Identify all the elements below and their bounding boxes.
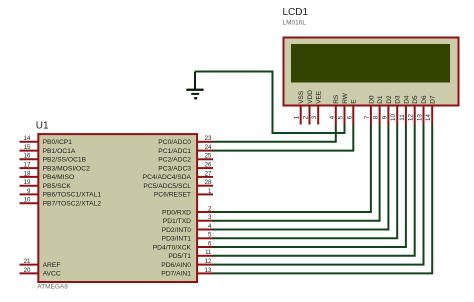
svg-text:PC0/ADC0: PC0/ADC0 — [158, 139, 191, 146]
svg-text:3: 3 — [208, 214, 212, 221]
svg-text:25: 25 — [205, 153, 212, 160]
U1 pin 5 PD3/INT1 — [162, 232, 213, 243]
U1 pin 6 PD4/T0/XCK — [153, 240, 213, 251]
U1 pin 2 PD0/RXD — [162, 205, 213, 216]
U1 pin 26 PC3/ADC3 — [158, 162, 213, 173]
wire PD1 to LCD D1 pin 8 — [213, 125, 380, 221]
svg-text:1: 1 — [208, 188, 212, 195]
svg-text:LM016L: LM016L — [283, 20, 307, 27]
svg-text:PB5/SCK: PB5/SCK — [43, 183, 72, 190]
svg-text:PC2/ADC2: PC2/ADC2 — [158, 157, 191, 164]
ground — [186, 72, 203, 100]
svg-text:8: 8 — [373, 115, 380, 119]
wire PD3 to LCD D3 pin 10 — [213, 125, 398, 239]
svg-text:PB1/OC1A: PB1/OC1A — [43, 148, 76, 155]
svg-text:PC3/ADC3: PC3/ADC3 — [158, 165, 191, 172]
svg-text:AVCC: AVCC — [43, 271, 61, 278]
svg-text:D5: D5 — [412, 95, 419, 104]
LCD1 screen — [291, 44, 450, 83]
U1 reference label — [36, 121, 49, 132]
svg-text:VDD: VDD — [307, 90, 314, 104]
svg-text:RS: RS — [333, 94, 340, 104]
svg-text:VEE: VEE — [316, 90, 323, 104]
LCD1 pin 9 D2 — [381, 95, 392, 124]
svg-text:18: 18 — [24, 170, 31, 177]
svg-text:14: 14 — [425, 114, 432, 121]
U1 pin 13 PD7/AIN1 — [161, 267, 213, 278]
svg-text:7: 7 — [364, 115, 371, 119]
wire PD5 to LCD D5 pin 12 — [213, 125, 415, 256]
svg-text:24: 24 — [205, 144, 212, 151]
LCD1 pin 2 VDD — [303, 90, 314, 125]
svg-text:5: 5 — [208, 232, 212, 239]
svg-text:11: 11 — [205, 249, 212, 256]
wire PD2 to LCD D2 pin 9 — [213, 125, 389, 230]
U1 value label ATMEGA8 — [37, 284, 68, 291]
svg-text:10: 10 — [390, 114, 397, 121]
wire PC1 pin24 to LCD E pin 6 — [213, 125, 354, 151]
wire ground net to LCD RW pin 5 — [195, 72, 345, 134]
U1 pin 14 PB0/ICP1 — [20, 135, 73, 146]
svg-text:3: 3 — [311, 115, 318, 119]
svg-text:D1: D1 — [377, 95, 384, 104]
svg-text:ATMEGA8: ATMEGA8 — [37, 284, 68, 291]
U1 pin 17 PB3/MOSI/OC2 — [20, 162, 91, 173]
wire PC0 pin23 to LCD RS pin 4 — [213, 125, 336, 142]
svg-text:20: 20 — [24, 267, 31, 274]
svg-text:D7: D7 — [430, 95, 437, 104]
U1 pin 16 PB2/SS/OC1B — [20, 153, 87, 164]
U1 pin 11 PD5/T1 — [168, 249, 213, 260]
LCD1 pin 6 E — [346, 99, 357, 125]
U1 pin 12 PD6/AIN0 — [161, 258, 213, 269]
svg-text:13: 13 — [205, 267, 212, 274]
svg-text:E: E — [351, 99, 358, 104]
svg-text:14: 14 — [24, 135, 31, 142]
svg-text:11: 11 — [399, 114, 406, 121]
svg-text:19: 19 — [24, 179, 31, 186]
U1 pin 3 PD1/TXD — [163, 214, 213, 225]
U1 pin 23 PC0/ADC0 — [158, 135, 213, 146]
svg-text:D4: D4 — [403, 95, 410, 104]
svg-text:28: 28 — [205, 179, 212, 186]
LCD1 pin 11 D4 — [399, 95, 410, 124]
U1 pin 4 PD2/INT0 — [162, 223, 213, 234]
U1 pin 24 PC1/ADC1 — [158, 144, 213, 155]
svg-text:PD5/T1: PD5/T1 — [168, 253, 191, 260]
svg-text:LCD1: LCD1 — [283, 7, 309, 18]
LCD1 pin 13 D6 — [417, 95, 428, 124]
U1 pin 15 PB1/OC1A — [20, 144, 76, 155]
LCD1 pin 10 D3 — [390, 95, 401, 124]
svg-text:PD0/RXD: PD0/RXD — [162, 209, 191, 216]
svg-text:VSS: VSS — [298, 90, 305, 104]
svg-text:PD6/AIN0: PD6/AIN0 — [161, 262, 191, 269]
svg-text:23: 23 — [205, 135, 212, 142]
U1 pin 28 PC5/ADC5/SCL — [143, 179, 213, 190]
LCD1 pin 4 RS — [329, 94, 340, 124]
svg-text:PD2/INT0: PD2/INT0 — [162, 227, 192, 234]
svg-text:2: 2 — [303, 115, 310, 119]
svg-text:6: 6 — [346, 115, 353, 119]
svg-text:2: 2 — [208, 205, 212, 212]
LCD1 pin 8 D1 — [373, 95, 384, 124]
wire PD0 to LCD D0 pin 7 — [213, 125, 371, 213]
U1 pin 10 PB7/TOSC2/XTAL2 — [20, 197, 102, 208]
LCD1 reference label — [283, 7, 309, 18]
svg-text:PB6/TOSC1/XTAL1: PB6/TOSC1/XTAL1 — [43, 192, 102, 199]
svg-text:PC5/ADC5/SCL: PC5/ADC5/SCL — [143, 183, 191, 190]
svg-text:27: 27 — [205, 170, 212, 177]
svg-text:12: 12 — [205, 258, 212, 265]
U1 pin 27 PC4/ADC4/SDA — [143, 170, 213, 181]
U1 pin 9 PB6/TOSC1/XTAL1 — [20, 188, 102, 199]
svg-text:PD1/TXD: PD1/TXD — [163, 218, 191, 225]
U1 pin 20 AVCC — [20, 267, 61, 278]
svg-text:9: 9 — [381, 115, 388, 119]
svg-text:RW: RW — [342, 92, 349, 104]
svg-text:26: 26 — [205, 162, 212, 169]
U1 pin 19 PB5/SCK — [20, 179, 72, 190]
svg-text:AREF: AREF — [43, 262, 61, 269]
svg-text:PD3/INT1: PD3/INT1 — [162, 236, 192, 243]
svg-text:PC1/ADC1: PC1/ADC1 — [158, 148, 191, 155]
wire PD4 to LCD D4 pin 11 — [213, 125, 406, 248]
svg-text:5: 5 — [338, 115, 345, 119]
LCD1 pin 12 D5 — [408, 95, 419, 124]
svg-text:PC4/ADC4/SDA: PC4/ADC4/SDA — [143, 174, 192, 181]
svg-text:PC6/RESET: PC6/RESET — [154, 192, 191, 199]
LCD1 pin 5 RW — [338, 92, 349, 124]
wire PD7 to LCD D7 pin 14 — [213, 125, 433, 274]
LCD1 value label LM016L — [283, 20, 307, 27]
svg-text:U1: U1 — [36, 121, 49, 132]
svg-text:PB4/MISO: PB4/MISO — [43, 174, 75, 181]
svg-text:PB7/TOSC2/XTAL2: PB7/TOSC2/XTAL2 — [43, 201, 102, 208]
wire PD6 to LCD D6 pin 13 — [213, 125, 424, 265]
svg-text:12: 12 — [408, 114, 415, 121]
svg-text:15: 15 — [24, 144, 31, 151]
svg-text:21: 21 — [24, 258, 31, 265]
svg-text:16: 16 — [24, 153, 31, 160]
svg-text:D2: D2 — [386, 95, 393, 104]
svg-text:PB0/ICP1: PB0/ICP1 — [43, 139, 73, 146]
IC U1 body — [38, 134, 197, 282]
svg-text:PB3/MOSI/OC2: PB3/MOSI/OC2 — [43, 165, 90, 172]
svg-text:D6: D6 — [421, 95, 428, 104]
U1 pin 1 PC6/RESET — [154, 188, 213, 199]
U1 pin 25 PC2/ADC2 — [158, 153, 213, 164]
svg-text:13: 13 — [417, 114, 424, 121]
LCD1 pin 14 D7 — [425, 95, 436, 124]
svg-text:17: 17 — [24, 162, 31, 169]
svg-text:PD4/T0/XCK: PD4/T0/XCK — [153, 244, 192, 251]
LCD1 pin 7 D0 — [364, 95, 375, 124]
svg-text:PB2/SS/OC1B: PB2/SS/OC1B — [43, 157, 87, 164]
svg-text:6: 6 — [208, 240, 212, 247]
svg-text:10: 10 — [24, 197, 31, 204]
svg-text:4: 4 — [208, 223, 212, 230]
LCD1 pin 3 VEE — [311, 90, 322, 124]
svg-text:9: 9 — [27, 188, 31, 195]
LCD1 body — [284, 38, 459, 106]
svg-text:1: 1 — [294, 115, 301, 119]
svg-text:4: 4 — [329, 115, 336, 119]
svg-text:PD7/AIN1: PD7/AIN1 — [161, 271, 191, 278]
svg-text:D0: D0 — [368, 95, 375, 104]
U1 pin 18 PB4/MISO — [20, 170, 75, 181]
U1 pin 21 AREF — [20, 258, 61, 269]
svg-text:D3: D3 — [395, 95, 402, 104]
LCD1 pin 1 VSS — [294, 90, 305, 124]
